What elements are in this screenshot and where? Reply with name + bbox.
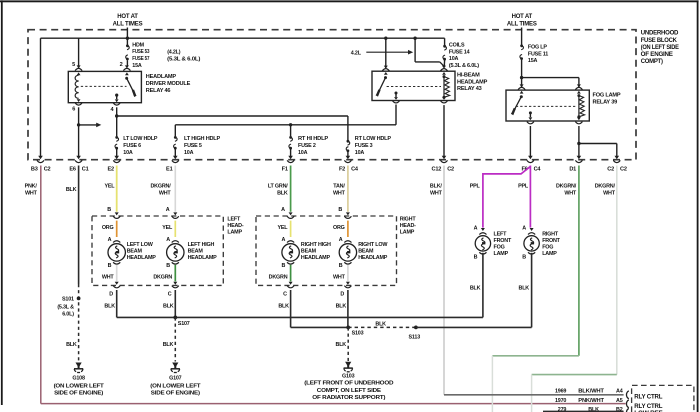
underhood fuse block dashed box: [28, 30, 636, 160]
wire: fog relay coil return to D1 / C2 connectors: [578, 126, 580, 157]
svg-text:BLK: BLK: [66, 187, 77, 193]
svg-text:WHT: WHT: [159, 191, 172, 197]
svg-text:10A: 10A: [184, 150, 194, 156]
connector to RLY CTRL (A5): [626, 400, 628, 408]
svg-text:WHT: WHT: [102, 275, 115, 281]
relay 43 actuation dashed link: [387, 86, 441, 88]
svg-text:HEADLAMP: HEADLAMP: [301, 255, 331, 261]
wire 279 BLK row: [543, 410, 624, 412]
connector C2/C2 at fuse block bottom: [615, 156, 620, 159]
relay: FOG LAMP RELAY 39 box: [506, 90, 589, 121]
svg-text:B3: B3: [31, 166, 38, 172]
svg-text:FOG: FOG: [494, 244, 505, 250]
svg-text:RT HI HDLP: RT HI HDLP: [298, 136, 329, 142]
ground G108: [76, 363, 82, 368]
svg-text:HEAD-: HEAD-: [400, 223, 416, 229]
svg-text:PPL: PPL: [518, 184, 529, 190]
svg-text:B: B: [166, 263, 170, 269]
bulb: [108, 244, 125, 261]
splice S113: [414, 326, 418, 330]
bulb: [339, 244, 356, 261]
svg-text:C1: C1: [82, 166, 89, 172]
connector E1 at fuse block bottom: [173, 156, 178, 159]
svg-text:HEADLAMP: HEADLAMP: [358, 255, 388, 261]
svg-text:LAMP: LAMP: [542, 251, 557, 257]
wire ORG pigtail: [347, 221, 349, 237]
svg-text:LAMP: LAMP: [227, 230, 242, 236]
relay 46 common contact to pin 4: [115, 94, 118, 97]
connector B3/C2 at fuse block bottom: [38, 156, 43, 159]
relay 43 bottom pins: [393, 101, 400, 103]
wire: relay 46 pin 4 down to LT LOW HDLP fuse: [116, 107, 118, 136]
svg-text:RIGHT LOW: RIGHT LOW: [358, 242, 388, 248]
svg-text:DKGRN/: DKGRN/: [595, 184, 616, 190]
svg-text:BLK/WHT: BLK/WHT: [578, 388, 604, 394]
junction feeding low-beam bus: [115, 114, 118, 117]
svg-text:FUSE 2: FUSE 2: [298, 143, 316, 149]
wire BLK dashed S103 to G103: [347, 327, 349, 361]
relay 43 common contact: [395, 92, 398, 95]
svg-text:E2: E2: [107, 166, 114, 172]
svg-text:BLK/: BLK/: [430, 184, 442, 190]
ground G107: [172, 363, 178, 368]
svg-text:A: A: [281, 237, 285, 243]
svg-text:SIDE OF ENGINE): SIDE OF ENGINE): [151, 391, 200, 397]
connector F1 at fuse block bottom: [288, 156, 293, 159]
svg-text:B2: B2: [616, 407, 623, 412]
wire DKGRN/WHT from D1 down to jog: [578, 166, 580, 356]
fuse COILS FUSE 14 10A (5.3L & 6.0L): [444, 38, 446, 45]
svg-text:RELAY 43: RELAY 43: [457, 86, 482, 92]
wire PNK/WHT from B3/C2 down and across page bottom to RLY CTRL: [40, 166, 42, 404]
wire: high-beam feed bus y=124.8 from relay 43 output: [175, 124, 396, 126]
wire BLK S107 to G107: [174, 317, 176, 361]
svg-text:G107: G107: [169, 375, 182, 381]
svg-text:BLK: BLK: [519, 285, 530, 291]
svg-text:279: 279: [558, 407, 567, 412]
svg-text:FUSE 53: FUSE 53: [132, 49, 149, 55]
fog relay switch blade: [520, 91, 524, 94]
svg-text:A: A: [281, 207, 285, 213]
svg-text:RLY CTRL: RLY CTRL: [634, 404, 663, 410]
connector to RLY CTRL (A4): [626, 391, 628, 399]
fuse RT LOW HDLP FUSE 3 10A: [347, 140, 350, 143]
dashed box: relay control module (bottom right): [632, 385, 694, 412]
svg-text:A: A: [108, 237, 112, 243]
svg-text:BLK: BLK: [336, 304, 347, 310]
svg-text:DKGRN: DKGRN: [153, 275, 172, 281]
svg-text:10A: 10A: [355, 150, 365, 156]
svg-text:HEADLAMP: HEADLAMP: [457, 79, 488, 85]
svg-text:PNK/WHT: PNK/WHT: [578, 398, 604, 404]
svg-text:HEADLAMP: HEADLAMP: [127, 255, 157, 261]
svg-text:E1: E1: [166, 166, 173, 172]
svg-text:B: B: [338, 207, 342, 213]
connector (B2): [626, 408, 628, 412]
svg-text:HDM: HDM: [132, 42, 144, 48]
headlamp box exit pin C: [289, 282, 293, 285]
wire: riser from bus down to relay 46 pin 5: [78, 38, 80, 68]
svg-text:ALL TIMES: ALL TIMES: [113, 22, 143, 28]
svg-text:LEFT: LEFT: [227, 216, 241, 222]
svg-text:(5.3L & 6.0L): (5.3L & 6.0L): [167, 57, 200, 63]
svg-text:WHT: WHT: [333, 275, 346, 281]
junction feeding RT HI HDLP fuse: [289, 123, 292, 126]
svg-text:6: 6: [72, 107, 75, 113]
fog bulb: [524, 236, 539, 251]
svg-text:A: A: [166, 237, 170, 243]
svg-text:FOG LP: FOG LP: [528, 44, 547, 50]
svg-text:C4: C4: [534, 166, 542, 172]
svg-text:1969: 1969: [555, 388, 566, 394]
svg-text:RT LOW HDLP: RT LOW HDLP: [355, 136, 392, 142]
svg-text:B: B: [474, 254, 478, 260]
svg-text:BLK: BLK: [277, 191, 288, 197]
svg-text:BEAM: BEAM: [358, 248, 374, 254]
right headlamp dashed box: [256, 216, 397, 285]
svg-text:F1: F1: [282, 166, 288, 172]
svg-text:D: D: [340, 292, 344, 298]
svg-text:S101: S101: [62, 296, 74, 302]
svg-text:LT LOW HDLP: LT LOW HDLP: [123, 136, 158, 142]
splice S107: [174, 290, 176, 317]
junction on pin-6 wire: [77, 123, 80, 126]
junction at hi-beam relay 43 coil feed: [384, 37, 387, 40]
relay 46 pin 4: [113, 103, 120, 105]
svg-text:D1: D1: [569, 166, 576, 172]
wire YEL from E2 to left headlamp: [116, 166, 118, 212]
svg-text:FOG: FOG: [542, 244, 553, 250]
wire: battery feed drop (left) into fuse block: [126, 28, 128, 39]
wire: main feed bus inside fuse block y=38: [41, 37, 445, 39]
svg-text:LAMP: LAMP: [494, 251, 509, 257]
wire BLK S113 to right fog lamp: [416, 326, 532, 328]
relay 43 coil: [442, 72, 446, 75]
svg-text:LT GRN/: LT GRN/: [268, 184, 288, 190]
headlamp box exit pin C: [173, 282, 177, 285]
fog relay top pins: [520, 84, 524, 87]
svg-text:WHT: WHT: [603, 191, 616, 197]
connector C12/C2 at fuse block bottom: [442, 156, 447, 159]
svg-text:BLK: BLK: [163, 342, 174, 348]
wire DKGRN jog from C2 wire: [532, 374, 617, 376]
relay 43 top pins: [384, 66, 388, 69]
svg-text:BLK: BLK: [470, 285, 481, 291]
svg-text:(LEFT FRONT OF UNDERHOOD: (LEFT FRONT OF UNDERHOOD: [304, 381, 393, 387]
fuse FOG LP FUSE 11 15A: [520, 44, 523, 47]
svg-text:FUSE 14: FUSE 14: [449, 49, 470, 55]
fog relay actuation dashed link: [516, 105, 576, 107]
svg-text:C: C: [168, 292, 172, 298]
svg-text:FUSE 57: FUSE 57: [132, 56, 149, 62]
wire: relay 43 output to C12/C2 connector: [443, 105, 445, 156]
svg-text:10A: 10A: [123, 150, 133, 156]
svg-text:BLK: BLK: [588, 407, 599, 412]
svg-text:YEL: YEL: [162, 225, 173, 231]
splice S101 (5.3L & 6.0L): [77, 297, 81, 301]
svg-text:FUSE 6: FUSE 6: [123, 143, 141, 149]
svg-text:(5.3L &: (5.3L &: [57, 305, 74, 311]
svg-text:C4: C4: [351, 166, 359, 172]
svg-text:BLK: BLK: [163, 304, 174, 310]
svg-text:FUSE 11: FUSE 11: [528, 51, 548, 57]
svg-text:FRONT: FRONT: [542, 238, 560, 244]
svg-text:RELAY 46: RELAY 46: [146, 88, 171, 94]
svg-text:15A: 15A: [528, 58, 538, 64]
svg-text:BLK: BLK: [66, 342, 77, 348]
fog relay common contact: [529, 111, 532, 114]
fuse HDM FUSE 53 / FUSE 57 15A: [126, 38, 128, 44]
svg-text:COILS: COILS: [449, 42, 465, 48]
fog relay bottom pins: [527, 122, 534, 124]
wire WHT pigtail: [347, 265, 349, 282]
svg-text:WHT: WHT: [333, 191, 346, 197]
fuse RT HI HDLP FUSE 2 10A: [289, 136, 292, 139]
wire: fog relay output to F6/C4 connector: [529, 126, 531, 157]
svg-text:B: B: [522, 254, 526, 260]
svg-text:HOT AT: HOT AT: [117, 14, 138, 20]
svg-text:ORG: ORG: [102, 225, 114, 231]
fuse LT LOW HDLP FUSE 6 10A: [115, 136, 118, 139]
fog relay coil: [577, 91, 581, 94]
svg-text:15A: 15A: [132, 63, 142, 69]
fog bulb: [475, 236, 490, 251]
svg-text:RLY CTRL: RLY CTRL: [634, 395, 663, 401]
svg-text:UNDERHOOD: UNDERHOOD: [641, 30, 679, 37]
arrow branch (to page right) from pin-6 wire: [79, 124, 97, 126]
wire DKGRN/WHT from C2/C2 down to jog: [616, 166, 618, 375]
wire BLK from fog lamp: [531, 253, 533, 328]
svg-text:HEAD-: HEAD-: [227, 223, 243, 229]
svg-text:C12: C12: [432, 166, 442, 172]
svg-text:HOT AT: HOT AT: [512, 14, 533, 20]
svg-text:4.2L: 4.2L: [351, 51, 362, 57]
svg-text:G103: G103: [342, 374, 355, 380]
svg-text:(4.2L): (4.2L): [167, 50, 181, 56]
svg-text:TAN/: TAN/: [333, 184, 345, 190]
svg-text:LAMP: LAMP: [400, 230, 415, 236]
wire YEL pigtail: [290, 221, 292, 237]
svg-text:BLK: BLK: [278, 304, 289, 310]
wire TAN/WHT from F2/C4 to right headlamp: [347, 166, 349, 212]
svg-text:RIGHT HIGH: RIGHT HIGH: [301, 242, 331, 248]
wire LT GRN/BLK from F1 to right headlamp: [290, 166, 292, 212]
svg-text:HI-BEAM: HI-BEAM: [457, 73, 480, 79]
relay 46 actuation dashed link: [81, 85, 127, 87]
wire BLK right-headlamp grounds to S103 y=327: [290, 290, 292, 327]
headlamp box exit pin D: [346, 282, 350, 285]
svg-text:YEL: YEL: [105, 184, 116, 190]
connector E6/C1 at fuse block bottom: [76, 156, 81, 159]
wire PPL from F6/C4 to both fog lamps: [483, 166, 531, 228]
svg-text:LEFT HIGH: LEFT HIGH: [188, 242, 215, 248]
svg-text:10A: 10A: [449, 56, 459, 62]
wire YEL pigtail: [174, 221, 176, 237]
connector E2 at fuse block bottom: [114, 156, 119, 159]
svg-text:LEFT: LEFT: [494, 231, 508, 237]
svg-text:BLK: BLK: [336, 342, 347, 348]
wire: loop from bus down-left to B3/C2 connector: [40, 38, 42, 156]
wire BLK from E6/C1 to S101: [78, 166, 80, 285]
svg-text:FRONT: FRONT: [494, 238, 512, 244]
wire BLK from fog lamp: [482, 253, 484, 318]
svg-text:A: A: [166, 207, 170, 213]
svg-text:5: 5: [72, 62, 75, 68]
svg-text:E6: E6: [69, 166, 76, 172]
outer border right edge: [697, 0, 699, 412]
bulb: [282, 244, 299, 261]
connector D1 at fuse block bottom: [577, 156, 582, 159]
svg-text:BLK: BLK: [375, 321, 386, 327]
wire 1969 BLK/WHT to RLY CTRL: [444, 394, 624, 396]
svg-text:10A: 10A: [298, 150, 308, 156]
svg-text:B: B: [107, 207, 111, 213]
svg-text:ALL TIMES: ALL TIMES: [507, 22, 537, 28]
wire WHT pigtail: [116, 265, 118, 282]
svg-text:C: C: [283, 292, 287, 298]
svg-text:FUSE 3: FUSE 3: [355, 143, 373, 149]
relay 46 pin 6: [75, 103, 82, 105]
svg-text:B: B: [339, 263, 343, 269]
relay 46 switch blade: [125, 72, 129, 75]
outer border top edge: [0, 0, 699, 2]
svg-text:A5: A5: [616, 398, 623, 404]
svg-text:B: B: [108, 263, 112, 269]
junction at coils-fuse branch: [413, 37, 416, 40]
svg-text:C2: C2: [607, 166, 614, 172]
svg-text:HEADLAMP: HEADLAMP: [146, 74, 177, 80]
ground G103: [345, 362, 351, 367]
svg-text:A: A: [339, 237, 343, 243]
wire DKGRN/WHT from E1 to left headlamp: [174, 166, 176, 212]
svg-text:G108: G108: [72, 375, 85, 381]
svg-text:HEADLAMP: HEADLAMP: [188, 255, 218, 261]
svg-text:OF ENGINE: OF ENGINE: [641, 51, 673, 58]
wire DKGRN pigtail: [290, 265, 292, 282]
svg-text:C2: C2: [620, 166, 627, 172]
wire ORG pigtail: [116, 221, 118, 237]
svg-text:YEL: YEL: [278, 225, 289, 231]
svg-text:F2: F2: [339, 166, 345, 172]
svg-text:DKGRN/: DKGRN/: [556, 184, 577, 190]
svg-text:(ON LOWER LEFT: (ON LOWER LEFT: [150, 384, 201, 390]
splice S103: [346, 326, 350, 330]
svg-text:S107: S107: [178, 321, 190, 327]
svg-text:FOG LAMP: FOG LAMP: [593, 93, 621, 99]
svg-text:BLK: BLK: [104, 304, 115, 310]
svg-text:C2: C2: [44, 166, 51, 172]
relay 43 switch blade: [384, 72, 388, 75]
svg-text:COMPT, ON LEFT SIDE: COMPT, ON LEFT SIDE: [317, 388, 382, 394]
relay 46 coil: [77, 72, 81, 75]
svg-text:WHT: WHT: [430, 191, 443, 197]
svg-text:SIDE OF ENGINE): SIDE OF ENGINE): [54, 391, 103, 397]
svg-text:2: 2: [120, 62, 123, 68]
svg-text:6.0L): 6.0L): [62, 312, 74, 318]
wire: relay 46 pin 6 down to E6/C1 connector: [78, 107, 80, 156]
wire BLK/WHT from C12/C2 down to 1969 row: [443, 166, 445, 395]
svg-text:S103: S103: [352, 330, 364, 336]
svg-text:(5.3L & 6.0L): (5.3L & 6.0L): [449, 63, 479, 69]
svg-text:WHT: WHT: [564, 191, 577, 197]
relay: HEADLAMP DRIVER MODULE RELAY 46 box: [68, 71, 141, 102]
bulb: [167, 244, 184, 261]
svg-text:(ON LOWER LEFT: (ON LOWER LEFT: [54, 384, 105, 390]
svg-text:(ON LEFT SIDE: (ON LEFT SIDE: [641, 44, 679, 51]
svg-text:ORG: ORG: [333, 225, 345, 231]
svg-text:A4: A4: [616, 388, 623, 394]
svg-text:1970: 1970: [555, 398, 566, 404]
svg-text:COMPT): COMPT): [641, 58, 663, 65]
junction feeding fog relay pins: [520, 76, 523, 79]
wire DKGRN jog from D1 wire: [492, 355, 579, 357]
wire: fog fuse feed drop (right): [521, 28, 523, 45]
svg-text:B: B: [281, 263, 285, 269]
svg-text:LT HIGH HDLP: LT HIGH HDLP: [184, 136, 221, 142]
svg-text:FUSE 5: FUSE 5: [184, 143, 202, 149]
svg-text:PPL: PPL: [470, 184, 481, 190]
svg-text:A: A: [522, 226, 526, 232]
wire pale drop to page bottom: [491, 356, 493, 412]
relay: HI-BEAM HEADLAMP RELAY 43 box: [372, 71, 455, 100]
svg-text:DKGRN: DKGRN: [269, 275, 288, 281]
junction at HDM fuse feed: [126, 37, 129, 40]
wire: bus drop to relay 43 switch pin: [385, 38, 387, 68]
wire: low-beam feed bus y=116: [117, 115, 348, 117]
svg-text:D: D: [109, 292, 113, 298]
connector F6/C4 at fuse block bottom: [528, 156, 533, 159]
svg-text:RIGHT: RIGHT: [542, 231, 559, 237]
svg-text:BEAM: BEAM: [188, 248, 204, 254]
left headlamp dashed box: [92, 216, 223, 285]
svg-text:RIGHT: RIGHT: [400, 216, 417, 222]
wire BLK left-headlamp ground bus y=317: [116, 290, 118, 317]
fuse LT HIGH HDLP FUSE 5 10A: [174, 136, 177, 139]
svg-text:A: A: [474, 226, 478, 232]
headlamp box exit pin D: [115, 282, 119, 285]
svg-text:WHT: WHT: [25, 191, 38, 197]
svg-text:BEAM: BEAM: [127, 248, 143, 254]
svg-text:FUSE BLOCK: FUSE BLOCK: [641, 37, 678, 44]
svg-text:PNK/: PNK/: [25, 184, 38, 190]
svg-text:S113: S113: [409, 335, 421, 341]
wire: branch to coils-fuse output join: [414, 38, 416, 62]
svg-text:LEFT LOW: LEFT LOW: [127, 242, 154, 248]
svg-text:C2: C2: [447, 166, 454, 172]
svg-text:OF RADIATOR SUPPORT): OF RADIATOR SUPPORT): [312, 395, 385, 401]
outer border left edge: [1, 0, 3, 405]
wire DKGRN pigtail: [174, 265, 176, 282]
wire BLK dashed S103 to S113: [348, 326, 416, 328]
svg-text:RELAY 39: RELAY 39: [593, 99, 618, 105]
connector F2/C4 at fuse block bottom: [346, 156, 351, 159]
wire pale drop to page bottom: [531, 375, 533, 412]
svg-text:DKGRN/: DKGRN/: [150, 184, 171, 190]
svg-text:BEAM: BEAM: [301, 248, 317, 254]
svg-text:DRIVER MODULE: DRIVER MODULE: [146, 81, 191, 87]
